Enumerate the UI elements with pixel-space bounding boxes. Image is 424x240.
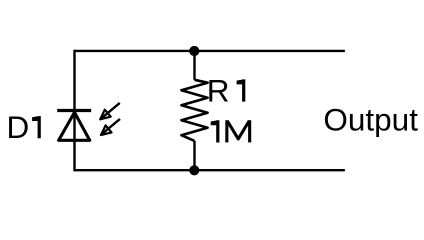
- light arrow upper shaft: [100, 103, 120, 120]
- photodiode D1 triangle: [59, 112, 90, 140]
- light arrow lower shaft: [101, 119, 120, 135]
- wire left branch: [73, 50, 75, 172]
- node junction dot top: [189, 46, 199, 56]
- svg-text:D: D: [7, 109, 30, 145]
- svg-text:Output: Output: [323, 102, 418, 138]
- label 1M: letter M (drawn): [227, 120, 250, 142]
- resistor R1 zigzag: [181, 80, 207, 141]
- label R1: digit 1 (drawn): [237, 79, 246, 101]
- svg-text:R: R: [207, 73, 230, 109]
- wire bottom rail: [75, 169, 345, 171]
- node junction dot bottom: [189, 165, 199, 175]
- label 1M: digit 1 (drawn): [211, 120, 220, 142]
- wire resistor bottom stub: [193, 141, 195, 170]
- light arrow upper head: [100, 110, 111, 120]
- label D1: digit 1 (drawn): [32, 116, 41, 138]
- wire resistor top stub: [193, 51, 195, 80]
- wire top rail: [75, 50, 345, 52]
- light arrow lower head: [101, 125, 112, 135]
- photodiode D1 cathode bar: [57, 109, 91, 112]
